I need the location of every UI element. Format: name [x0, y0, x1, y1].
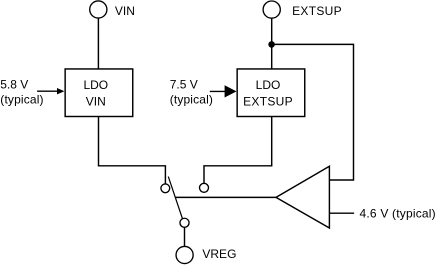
terminal VIN	[90, 1, 107, 18]
block LDO VIN	[65, 69, 133, 117]
wire switch common to VREG	[184, 227, 186, 246]
svg-text:LDO: LDO	[83, 78, 108, 92]
wire EXTSUP to LDO EXTSUP box	[271, 18, 273, 69]
terminal EXTSUP	[263, 1, 280, 18]
wire comparator output to switch	[175, 196, 276, 198]
wire junction to comparator input	[272, 44, 354, 180]
junction node on EXTSUP wire	[268, 41, 275, 48]
svg-text:VIN: VIN	[115, 4, 135, 18]
svg-text:VIN: VIN	[86, 94, 106, 108]
svg-text:(typical): (typical)	[170, 93, 213, 107]
svg-text:7.5 V: 7.5 V	[170, 78, 198, 92]
switch common pole	[180, 218, 189, 227]
svg-text:EXTSUP: EXTSUP	[292, 4, 342, 18]
wire LDO EXTSUP output to switch right contact	[204, 117, 272, 184]
arrow into LDO VIN	[37, 90, 58, 92]
svg-text:EXTSUP: EXTSUP	[243, 94, 293, 108]
switch right contact	[200, 183, 209, 192]
svg-text:LDO: LDO	[256, 78, 281, 92]
svg-text:5.8 V: 5.8 V	[0, 78, 28, 92]
svg-text:VREG: VREG	[202, 247, 236, 261]
wire 4.6 V reference	[329, 212, 354, 214]
svg-text:(typical): (typical)	[0, 93, 43, 107]
wire VIN to LDO VIN box	[97, 18, 99, 69]
block LDO EXTSUP	[237, 69, 305, 117]
svg-text:4.6 V (typical): 4.6 V (typical)	[360, 206, 436, 220]
switch lever	[168, 177, 182, 219]
arrow into LDO EXTSUP	[210, 90, 226, 92]
wire LDO VIN output to switch left contact	[99, 117, 166, 185]
comparator U1	[276, 166, 329, 228]
switch left contact	[161, 184, 170, 193]
terminal VREG	[176, 246, 193, 263]
